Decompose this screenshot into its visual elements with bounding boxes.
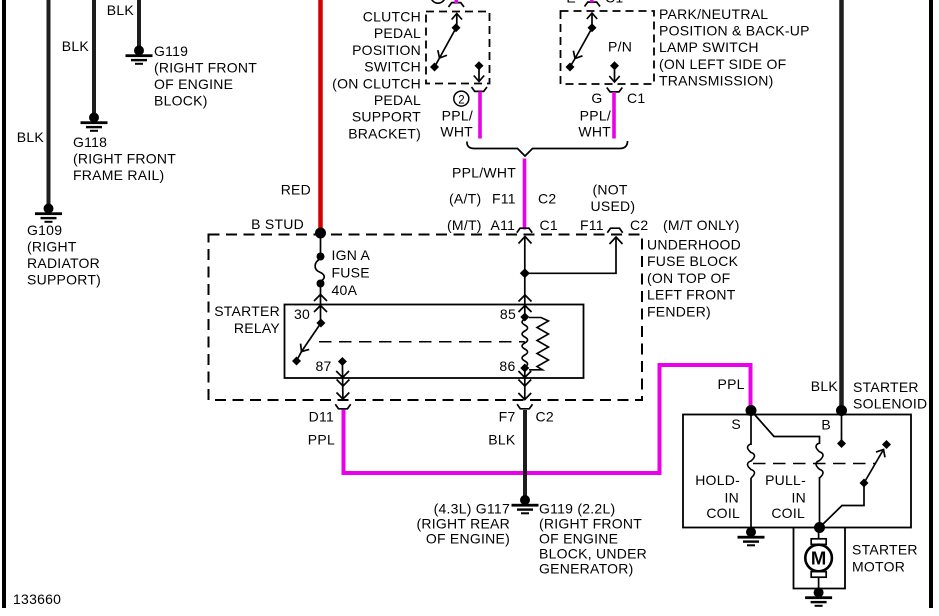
svg-text:BLK: BLK bbox=[811, 378, 839, 394]
wire PPL/WHT from clutch switch bbox=[478, 92, 482, 139]
svg-text:(RIGHT REAR: (RIGHT REAR bbox=[417, 516, 511, 532]
node S bbox=[746, 405, 757, 416]
wire BLK to G109 bbox=[47, 0, 51, 206]
wire blade to motor junction bbox=[820, 483, 865, 528]
clutch switch lower contact (down arrow, pin 2) bbox=[475, 61, 484, 70]
ground G119 bbox=[126, 46, 153, 65]
svg-text:SUPPORT): SUPPORT) bbox=[27, 272, 101, 288]
svg-text:PEDAL: PEDAL bbox=[374, 25, 421, 41]
ground below starter motor bbox=[805, 588, 832, 607]
svg-text:OF ENGINE: OF ENGINE bbox=[154, 76, 233, 92]
svg-text:C1: C1 bbox=[605, 0, 623, 6]
wire BLK to G119 bbox=[137, 0, 141, 49]
svg-text:(4.3L) G117: (4.3L) G117 bbox=[434, 501, 510, 517]
motor M1 bbox=[818, 528, 820, 540]
svg-text:S: S bbox=[731, 416, 741, 432]
ground G118 bbox=[81, 113, 108, 132]
svg-text:BLK: BLK bbox=[488, 432, 516, 448]
svg-text:G109: G109 bbox=[27, 222, 62, 238]
svg-text:C1: C1 bbox=[540, 217, 558, 233]
wire BLK to G118 bbox=[92, 0, 96, 116]
starter motor box bbox=[794, 528, 846, 589]
page left border bbox=[2, 0, 6, 608]
clutch switch fixed contact (top arrow) bbox=[456, 14, 458, 28]
svg-text:MOTOR: MOTOR bbox=[852, 559, 905, 575]
hold-in coil bbox=[748, 444, 755, 478]
connector F7 C2 out of fuse block bbox=[517, 404, 532, 409]
junction pull-in coil / motor bbox=[814, 522, 825, 533]
svg-text:IGN A: IGN A bbox=[332, 247, 371, 263]
wire PPL/WHT trunk bbox=[523, 159, 527, 230]
svg-text:(ON TOP OF: (ON TOP OF bbox=[647, 270, 730, 286]
svg-text:PARK/NEUTRAL: PARK/NEUTRAL bbox=[659, 6, 768, 22]
connector cavity 1 (top of clutch switch) bbox=[431, 0, 445, 3]
svg-text:2: 2 bbox=[458, 94, 464, 106]
P/N switch lower contact (down arrow, pin G) bbox=[610, 61, 619, 70]
svg-text:85: 85 bbox=[500, 306, 516, 322]
ground below hold-in coil bbox=[738, 527, 765, 546]
svg-text:(A/T): (A/T) bbox=[449, 191, 481, 207]
clutch switch movable blade bbox=[440, 28, 457, 58]
svg-text:(M/T): (M/T) bbox=[447, 217, 482, 233]
svg-text:BLK: BLK bbox=[107, 2, 135, 18]
svg-text:FUSE BLOCK: FUSE BLOCK bbox=[647, 253, 739, 269]
svg-text:F7: F7 bbox=[499, 409, 516, 425]
relay switch blade bbox=[302, 323, 321, 352]
svg-text:SWITCH: SWITCH bbox=[364, 59, 421, 75]
solenoid actuation dashed link bbox=[753, 463, 876, 465]
svg-text:B: B bbox=[821, 417, 831, 433]
svg-text:C2: C2 bbox=[538, 191, 556, 207]
svg-text:PPL: PPL bbox=[718, 376, 745, 392]
junction node bbox=[520, 268, 530, 278]
svg-text:(NOT: (NOT bbox=[593, 182, 628, 198]
relay actuation dashed link bbox=[319, 341, 525, 343]
svg-text:86: 86 bbox=[499, 358, 515, 374]
svg-text:SUPPORT: SUPPORT bbox=[352, 109, 421, 125]
svg-text:LAMP SWITCH: LAMP SWITCH bbox=[659, 39, 759, 55]
svg-text:(ON LEFT SIDE OF: (ON LEFT SIDE OF bbox=[659, 56, 786, 72]
svg-text:30: 30 bbox=[294, 306, 310, 322]
svg-text:C1: C1 bbox=[627, 90, 645, 106]
wire RED battery feed bbox=[318, 0, 323, 231]
underhood fuse block (dashed box) bbox=[209, 235, 643, 401]
svg-text:M: M bbox=[811, 548, 826, 569]
svg-text:G118: G118 bbox=[73, 134, 107, 150]
svg-text:POSITION & BACK-UP: POSITION & BACK-UP bbox=[659, 23, 810, 39]
svg-text:(M/T ONLY): (M/T ONLY) bbox=[663, 217, 740, 233]
wire PPL from D11 to solenoid S bbox=[344, 365, 751, 473]
svg-text:87: 87 bbox=[316, 358, 332, 374]
pull-in coil bbox=[816, 443, 823, 478]
svg-text:PEDAL: PEDAL bbox=[374, 92, 421, 108]
svg-text:IN: IN bbox=[725, 490, 740, 506]
P/N switch movable blade bbox=[575, 28, 592, 59]
wire PPL/WHT from P/N switch bbox=[612, 92, 616, 139]
svg-text:F11: F11 bbox=[492, 191, 516, 207]
wire A11 to relay 85 bbox=[524, 237, 526, 318]
connector A11 C1 into fuse block bbox=[517, 228, 532, 233]
svg-text:WHT: WHT bbox=[440, 124, 473, 140]
connector D11 out of fuse block bbox=[335, 404, 350, 409]
park/neutral position switch S2 (dashed box) bbox=[561, 11, 655, 84]
wire B to solenoid contact bbox=[841, 411, 843, 441]
svg-text:C2: C2 bbox=[536, 409, 554, 425]
svg-text:G: G bbox=[591, 90, 602, 106]
svg-text:(RIGHT FRONT: (RIGHT FRONT bbox=[73, 151, 176, 167]
wire BLK from F7 to ground bbox=[523, 410, 527, 496]
svg-text:D11: D11 bbox=[309, 409, 334, 425]
svg-text:C2: C2 bbox=[630, 217, 648, 233]
wire S to hold-in coil bbox=[750, 411, 752, 446]
svg-text:RADIATOR: RADIATOR bbox=[27, 255, 100, 271]
node B bbox=[836, 405, 847, 416]
P/N switch fixed contact (top arrow) bbox=[591, 13, 593, 28]
svg-text:USED): USED) bbox=[591, 198, 636, 214]
svg-text:G119 (2.2L): G119 (2.2L) bbox=[539, 501, 615, 517]
wire PPL stub into P/N switch bbox=[590, 0, 594, 3]
svg-text:PPL/: PPL/ bbox=[580, 108, 611, 124]
connector F11 C2 (not used) into fuse block bbox=[607, 228, 622, 233]
svg-text:E: E bbox=[566, 0, 576, 6]
svg-text:PULL-: PULL- bbox=[765, 472, 806, 488]
svg-text:(RIGHT FRONT: (RIGHT FRONT bbox=[539, 516, 642, 532]
svg-text:(ON CLUTCH: (ON CLUTCH bbox=[332, 75, 421, 91]
svg-text:FUSE: FUSE bbox=[332, 265, 370, 281]
svg-text:RELAY: RELAY bbox=[234, 320, 281, 336]
svg-text:UNDERHOOD: UNDERHOOD bbox=[647, 237, 741, 253]
wire S to pull-in coil bbox=[751, 411, 820, 445]
svg-text:SOLENOID: SOLENOID bbox=[853, 396, 927, 412]
svg-text:PPL/: PPL/ bbox=[442, 108, 473, 124]
svg-text:COIL: COIL bbox=[706, 505, 740, 521]
svg-text:STARTER: STARTER bbox=[214, 303, 280, 319]
solenoid movable blade bbox=[864, 450, 884, 484]
svg-text:(RIGHT FRONT: (RIGHT FRONT bbox=[154, 60, 257, 76]
svg-text:HOLD-: HOLD- bbox=[695, 472, 740, 488]
svg-text:FRAME RAIL): FRAME RAIL) bbox=[73, 167, 164, 183]
svg-text:PPL/WHT: PPL/WHT bbox=[452, 165, 516, 181]
svg-text:133660: 133660 bbox=[13, 591, 61, 607]
clutch pedal position switch S1 (dashed box) bbox=[426, 12, 490, 84]
svg-text:B STUD: B STUD bbox=[251, 216, 304, 232]
svg-text:LEFT FRONT: LEFT FRONT bbox=[647, 287, 736, 303]
svg-text:F11: F11 bbox=[580, 217, 604, 233]
svg-text:BLK: BLK bbox=[17, 129, 45, 145]
svg-text:40A: 40A bbox=[332, 282, 358, 298]
svg-text:STARTER: STARTER bbox=[852, 542, 918, 558]
svg-text:BLK: BLK bbox=[62, 38, 90, 54]
wire PPL stub into clutch switch bbox=[454, 0, 458, 3]
svg-text:GENERATOR): GENERATOR) bbox=[539, 561, 634, 577]
ground G117/G119 bbox=[512, 495, 539, 514]
wire junction to F11 (not used) bbox=[525, 238, 616, 273]
connector cavity G C1 (bottom of P/N switch) bbox=[607, 88, 623, 92]
splice brace joining both PPL/WHT wires bbox=[467, 141, 628, 156]
svg-text:A11: A11 bbox=[491, 217, 516, 233]
fuse IGN A 40A bbox=[320, 233, 322, 256]
svg-text:TRANSMISSION): TRANSMISSION) bbox=[659, 72, 773, 88]
connector arrows fuse to relay pin 30 bbox=[314, 295, 327, 302]
svg-text:WHT: WHT bbox=[578, 124, 611, 140]
svg-text:RED: RED bbox=[281, 182, 311, 198]
svg-text:BLOCK, UNDER: BLOCK, UNDER bbox=[539, 546, 647, 562]
svg-text:IN: IN bbox=[792, 490, 807, 506]
svg-text:COIL: COIL bbox=[771, 505, 805, 521]
solenoid contact fixed (right) bbox=[882, 440, 891, 449]
page right border bbox=[929, 0, 933, 608]
svg-text:CLUTCH: CLUTCH bbox=[363, 9, 421, 25]
relay coil bbox=[522, 319, 528, 367]
wire BLK battery to solenoid B bbox=[839, 0, 844, 410]
svg-text:PPL: PPL bbox=[308, 432, 335, 448]
svg-text:(RIGHT: (RIGHT bbox=[27, 239, 77, 255]
svg-text:POSITION: POSITION bbox=[352, 42, 421, 58]
relay coil resistor (parallel) bbox=[529, 318, 549, 370]
svg-text:P/N: P/N bbox=[608, 39, 632, 55]
svg-text:OF ENGINE: OF ENGINE bbox=[539, 531, 618, 547]
svg-text:STARTER: STARTER bbox=[853, 379, 919, 395]
connector cavity 2 (bottom of clutch switch) bbox=[472, 87, 488, 91]
ground G109 bbox=[35, 204, 62, 223]
svg-text:G119: G119 bbox=[154, 43, 188, 59]
svg-text:FENDER): FENDER) bbox=[647, 303, 711, 319]
svg-text:BRACKET): BRACKET) bbox=[348, 125, 421, 141]
svg-text:OF ENGINE): OF ENGINE) bbox=[426, 531, 510, 547]
svg-text:BLOCK): BLOCK) bbox=[154, 93, 208, 109]
